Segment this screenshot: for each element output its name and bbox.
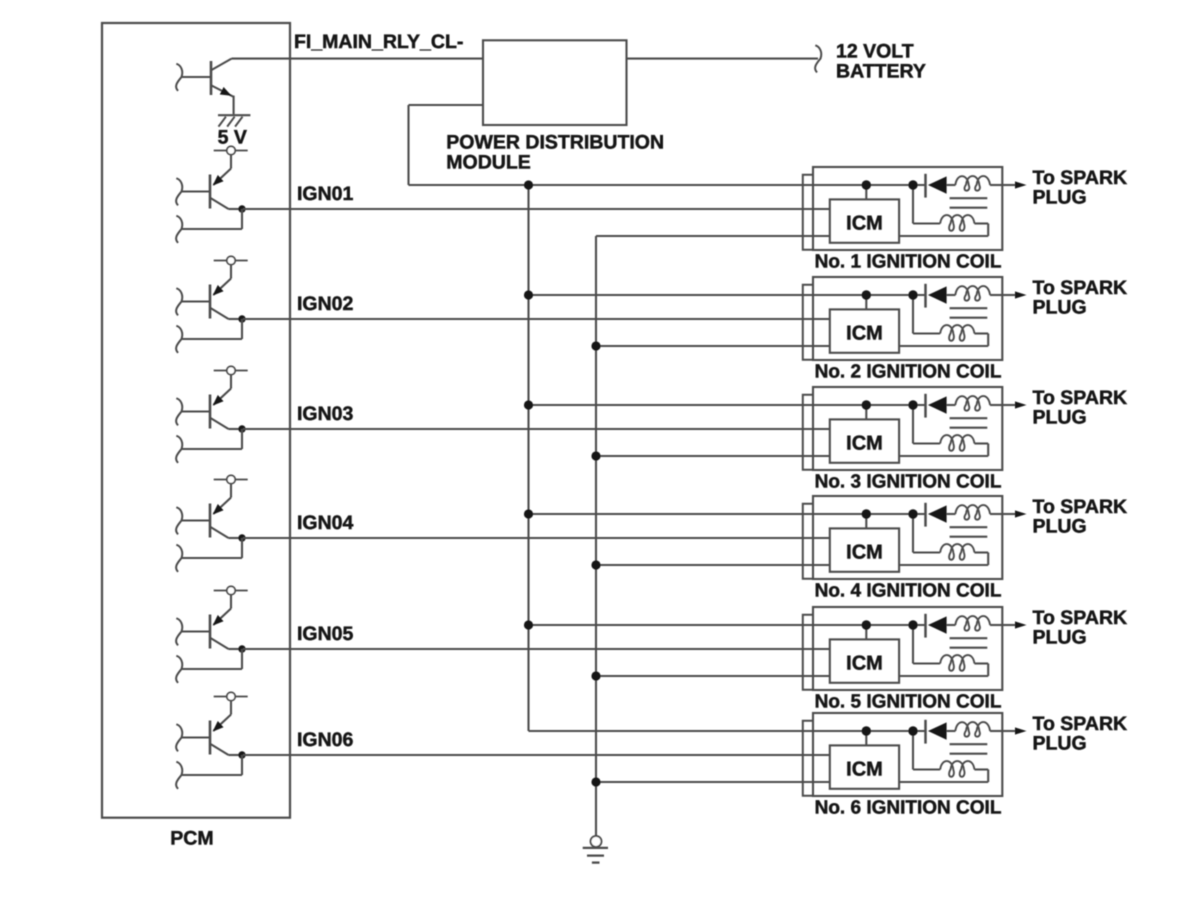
svg-text:PLUG: PLUG [1033, 515, 1087, 537]
svg-text:ICM: ICM [846, 433, 883, 455]
svg-text:IGN01: IGN01 [297, 183, 354, 205]
svg-text:PCM: PCM [170, 828, 213, 850]
svg-text:No. 6 IGNITION COIL: No. 6 IGNITION COIL [815, 798, 1002, 819]
svg-text:No. 2 IGNITION COIL: No. 2 IGNITION COIL [815, 362, 1002, 383]
svg-text:PLUG: PLUG [1033, 626, 1087, 648]
svg-text:IGN03: IGN03 [297, 403, 354, 425]
svg-text:MODULE: MODULE [446, 151, 531, 173]
svg-text:No. 3 IGNITION COIL: No. 3 IGNITION COIL [815, 472, 1002, 493]
svg-text:ICM: ICM [846, 653, 883, 675]
svg-text:No. 1 IGNITION COIL: No. 1 IGNITION COIL [815, 252, 1002, 273]
svg-text:IGN04: IGN04 [297, 512, 354, 534]
svg-text:PLUG: PLUG [1033, 186, 1087, 208]
svg-text:No. 5 IGNITION COIL: No. 5 IGNITION COIL [815, 692, 1002, 713]
svg-text:No. 4 IGNITION COIL: No. 4 IGNITION COIL [815, 581, 1002, 602]
svg-text:ICM: ICM [846, 542, 883, 564]
svg-text:ICM: ICM [846, 323, 883, 345]
svg-text:ICM: ICM [846, 759, 883, 781]
svg-text:IGN05: IGN05 [297, 623, 354, 645]
svg-text:12 VOLT: 12 VOLT [836, 41, 914, 63]
svg-text:PLUG: PLUG [1033, 732, 1087, 754]
svg-text:PLUG: PLUG [1033, 296, 1087, 318]
svg-text:ICM: ICM [846, 213, 883, 235]
svg-text:IGN06: IGN06 [297, 729, 354, 751]
svg-text:IGN02: IGN02 [297, 293, 354, 315]
svg-text:FI_MAIN_RLY_CL-: FI_MAIN_RLY_CL- [294, 31, 463, 53]
svg-text:POWER DISTRIBUTION: POWER DISTRIBUTION [446, 131, 664, 153]
svg-text:PLUG: PLUG [1033, 406, 1087, 428]
svg-text:BATTERY: BATTERY [836, 61, 926, 83]
svg-text:5 V: 5 V [218, 126, 247, 148]
